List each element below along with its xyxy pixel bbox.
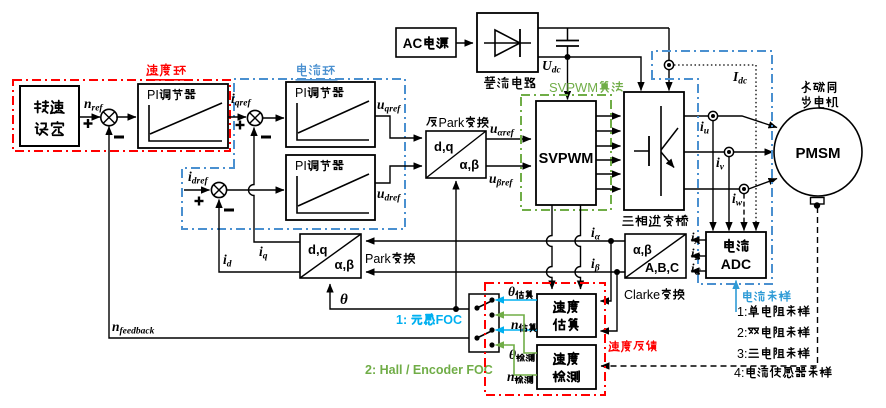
label 三相逆变桥: [623, 217, 633, 225]
summing junction d current (i_dref + / i_d -): [211, 182, 226, 197]
svg-text:d,q: d,q: [308, 242, 328, 257]
summing junction speed (n_ref + / n_feedback -): [101, 109, 117, 125]
wire u_dref: d PI to inverse Park: [375, 166, 422, 183]
current sensor on phase v: [724, 147, 733, 156]
wire phase w to PMSM: [749, 179, 777, 190]
wire n feedback from switch to speed junction: [109, 127, 469, 339]
svg-text:αref: αref: [498, 129, 515, 139]
wire i_w drop to ADC (dashed): [743, 194, 745, 231]
wire encoder feedback (dashed) to 速度检测: [601, 207, 818, 366]
wire DC bus top rail: [538, 27, 669, 29]
wires ADC outputs i_A i_B i_C to Clarke: [691, 239, 706, 241]
diode symbol inside rectifier: [495, 30, 520, 56]
wire i_α branch to 速度估算: [601, 241, 612, 301]
block 转速设定 (speed reference): [20, 86, 79, 146]
svg-text:C: C: [695, 267, 702, 277]
block d-axis PI regulator PI调节器: [286, 155, 375, 220]
switch selector box: [469, 294, 499, 352]
wire i_v drop to ADC: [728, 157, 730, 231]
label + at q junction: [236, 124, 245, 126]
wire u_alpha_ref to SVPWM: [486, 138, 531, 140]
svg-text:PI: PI: [295, 86, 307, 100]
svg-text:dref: dref: [192, 177, 209, 187]
wire AC source to rectifier: [456, 42, 473, 44]
loop box 速度环 (red dash-dot): [13, 80, 230, 151]
capacitor on DC bus: [567, 28, 569, 40]
wire i_u drop to ADC: [712, 121, 714, 231]
label - at q junction: [261, 136, 271, 139]
wire θ估算 (cyan) estimator to switch: [496, 299, 538, 301]
svg-text:v: v: [720, 163, 725, 173]
label 反Park变换: [427, 118, 436, 127]
svg-text:θ: θ: [508, 284, 515, 299]
block Clarke transform α,β / A,B,C: [625, 234, 686, 278]
wire U_dc down to SVPWM: [567, 57, 569, 100]
loop box SVPWM算法 (green dash-dot): [521, 95, 611, 210]
svg-text:3:: 3:: [737, 347, 747, 361]
wire i_β Clarke to Park: [366, 271, 625, 273]
wire d junction to d PI (hop over i_q line): [227, 189, 284, 191]
svg-text:A,B,C: A,B,C: [645, 261, 679, 275]
label 电流采样 (blue): [744, 291, 752, 302]
label + at speed junction: [84, 122, 93, 124]
label 整流电路: [485, 77, 495, 88]
svg-text:PI: PI: [295, 159, 307, 173]
svg-text:2: Hall / Encoder FOC: 2: Hall / Encoder FOC: [365, 363, 493, 377]
svg-text:d,q: d,q: [434, 139, 454, 154]
wire q junction to q PI: [262, 117, 284, 119]
wire phase v from inverter: [684, 151, 724, 153]
wire into d summing junction: [184, 189, 210, 191]
block rectifier 整流电路: [477, 13, 538, 72]
label - at d junction: [224, 209, 234, 212]
current sensor on phase w: [739, 184, 748, 193]
svg-text:d: d: [227, 260, 232, 270]
current sensor on phase u: [708, 111, 717, 120]
wire u_α from SVPWM to 速度估算 (hops): [547, 205, 553, 289]
wire phase w from inverter: [684, 188, 739, 190]
block q-axis PI regulator PI调节器: [286, 82, 375, 147]
node junction on i_β: [614, 269, 620, 275]
loop box speed feedback (red dash-dot): [485, 283, 605, 395]
svg-text:qref: qref: [235, 99, 252, 109]
svg-text:βref: βref: [496, 179, 514, 189]
block Park transform d,q / α,β: [300, 234, 361, 278]
svg-text:θ: θ: [509, 347, 516, 362]
svg-text:qref: qref: [385, 105, 402, 115]
svg-text:feedback: feedback: [120, 327, 155, 337]
position sensor on PMSM shaft: [811, 198, 825, 205]
svg-text:FOC: FOC: [436, 313, 462, 327]
wire speed junction to speed PI: [116, 116, 136, 118]
svg-text:ADC: ADC: [721, 256, 751, 272]
svg-text:n: n: [511, 317, 519, 332]
switch contact n检测: [489, 342, 494, 347]
svg-text:1:: 1:: [737, 305, 747, 319]
wire 转速设定 to speed summing junction: [79, 116, 100, 118]
wire phase u to PMSM: [718, 116, 777, 128]
loop box 电流环 (blue dash-dot polygon): [182, 79, 405, 229]
wire n检测 (green) detector to switch: [496, 345, 538, 375]
block AC电源: [396, 28, 456, 57]
wire u_beta_ref to SVPWM: [486, 165, 531, 167]
svg-text:q: q: [263, 252, 268, 262]
wire top rail down through I_dc sensor to inverter: [668, 28, 670, 61]
wire i_q output of Park to q junction: [249, 128, 300, 243]
svg-text:dc: dc: [738, 77, 748, 87]
svg-text:PMSM: PMSM: [796, 145, 841, 162]
block speed PI regulator PI调节器: [138, 84, 228, 148]
wire u_β from SVPWM to 速度估算 (hops): [575, 205, 581, 289]
block speed estimator 速度估算: [537, 294, 596, 337]
switch pole upper (θ): [474, 305, 479, 310]
svg-text:B: B: [694, 252, 701, 262]
svg-text:SVPWM: SVPWM: [539, 151, 594, 167]
label 永磁同步电机: [802, 81, 810, 92]
svg-text:θ: θ: [340, 292, 348, 308]
svg-text:Clarke: Clarke: [624, 288, 660, 302]
svg-text:w: w: [736, 199, 743, 209]
svg-text:n: n: [507, 369, 515, 384]
wire θ检测 (green) detector to switch: [496, 315, 538, 353]
block speed detector 速度检测: [537, 345, 596, 389]
wire u_qref: q PI to inverse Park: [375, 116, 422, 138]
wire i_β branch to 速度估算: [601, 272, 618, 331]
wire θ from switch to Park (and up to inverse Park): [330, 284, 469, 309]
switch contact n估算: [489, 327, 494, 332]
wire i_α Clarke to Park: [366, 240, 625, 242]
svg-text:u: u: [704, 127, 709, 137]
switch contact θ估算: [489, 297, 494, 302]
wires SVPWM PWM outputs to inverter (6): [596, 115, 621, 117]
wire phase v to PMSM: [734, 151, 773, 153]
svg-text:Park: Park: [439, 116, 465, 130]
motor PMSM circle: [774, 108, 862, 196]
svg-text:α,β: α,β: [460, 157, 480, 172]
svg-text:PI: PI: [147, 88, 159, 102]
svg-text:α,β: α,β: [335, 257, 355, 272]
svg-text:4:: 4:: [734, 366, 744, 380]
wire θ branch up to inverse Park: [455, 181, 457, 309]
svg-text:α: α: [595, 233, 601, 243]
summing junction q current (i_qref + / i_q -): [247, 110, 262, 125]
switch pole lower (n): [474, 335, 479, 340]
label - at speed junction: [114, 136, 124, 139]
svg-text:A: A: [694, 236, 701, 246]
svg-text:n: n: [112, 319, 120, 334]
label 速度反馈: [609, 341, 619, 351]
svg-text:2:: 2:: [737, 326, 747, 340]
svg-text:n: n: [84, 96, 92, 111]
node DC bus junction: [565, 54, 571, 60]
block three-phase inverter 三相逆变桥: [624, 92, 684, 210]
IGBT symbol inside inverter: [634, 150, 649, 152]
label 电流环 (underlined): [298, 64, 307, 76]
svg-text:SVPWM: SVPWM: [549, 80, 598, 95]
node junction on i_α: [608, 238, 614, 244]
wire speed PI to q summing junction: [228, 116, 246, 118]
label + at d junction: [195, 200, 204, 202]
wire i_d output of Park to d junction: [219, 200, 300, 273]
region box current sampling (blue dash-dot): [652, 51, 772, 284]
wire phase u from inverter: [684, 115, 708, 117]
block SVPWM: [536, 101, 596, 205]
switch contact θ检测: [489, 312, 494, 317]
block current ADC 电流ADC: [706, 232, 766, 278]
svg-text:dref: dref: [385, 194, 402, 204]
wire n估算 (cyan) estimator to switch: [496, 329, 538, 331]
wire DC bus bottom rail: [538, 57, 641, 91]
svg-text:ref: ref: [92, 104, 104, 114]
svg-text:β: β: [594, 264, 600, 274]
svg-text:1:: 1:: [396, 313, 407, 327]
svg-text:α,β: α,β: [633, 243, 652, 257]
label 速度环 (underlined): [147, 64, 158, 75]
svg-text:Park: Park: [365, 252, 391, 266]
svg-text:AC: AC: [403, 36, 423, 51]
node junction on θ wire: [453, 306, 459, 312]
block inverse Park transform d,q to α,β: [426, 131, 486, 178]
current sensor I_dc: [664, 60, 673, 69]
wire I_dc dotted to current ADC: [674, 65, 756, 231]
svg-text:dc: dc: [552, 66, 562, 76]
wire pointer to ADC (blue arrow): [735, 281, 737, 313]
